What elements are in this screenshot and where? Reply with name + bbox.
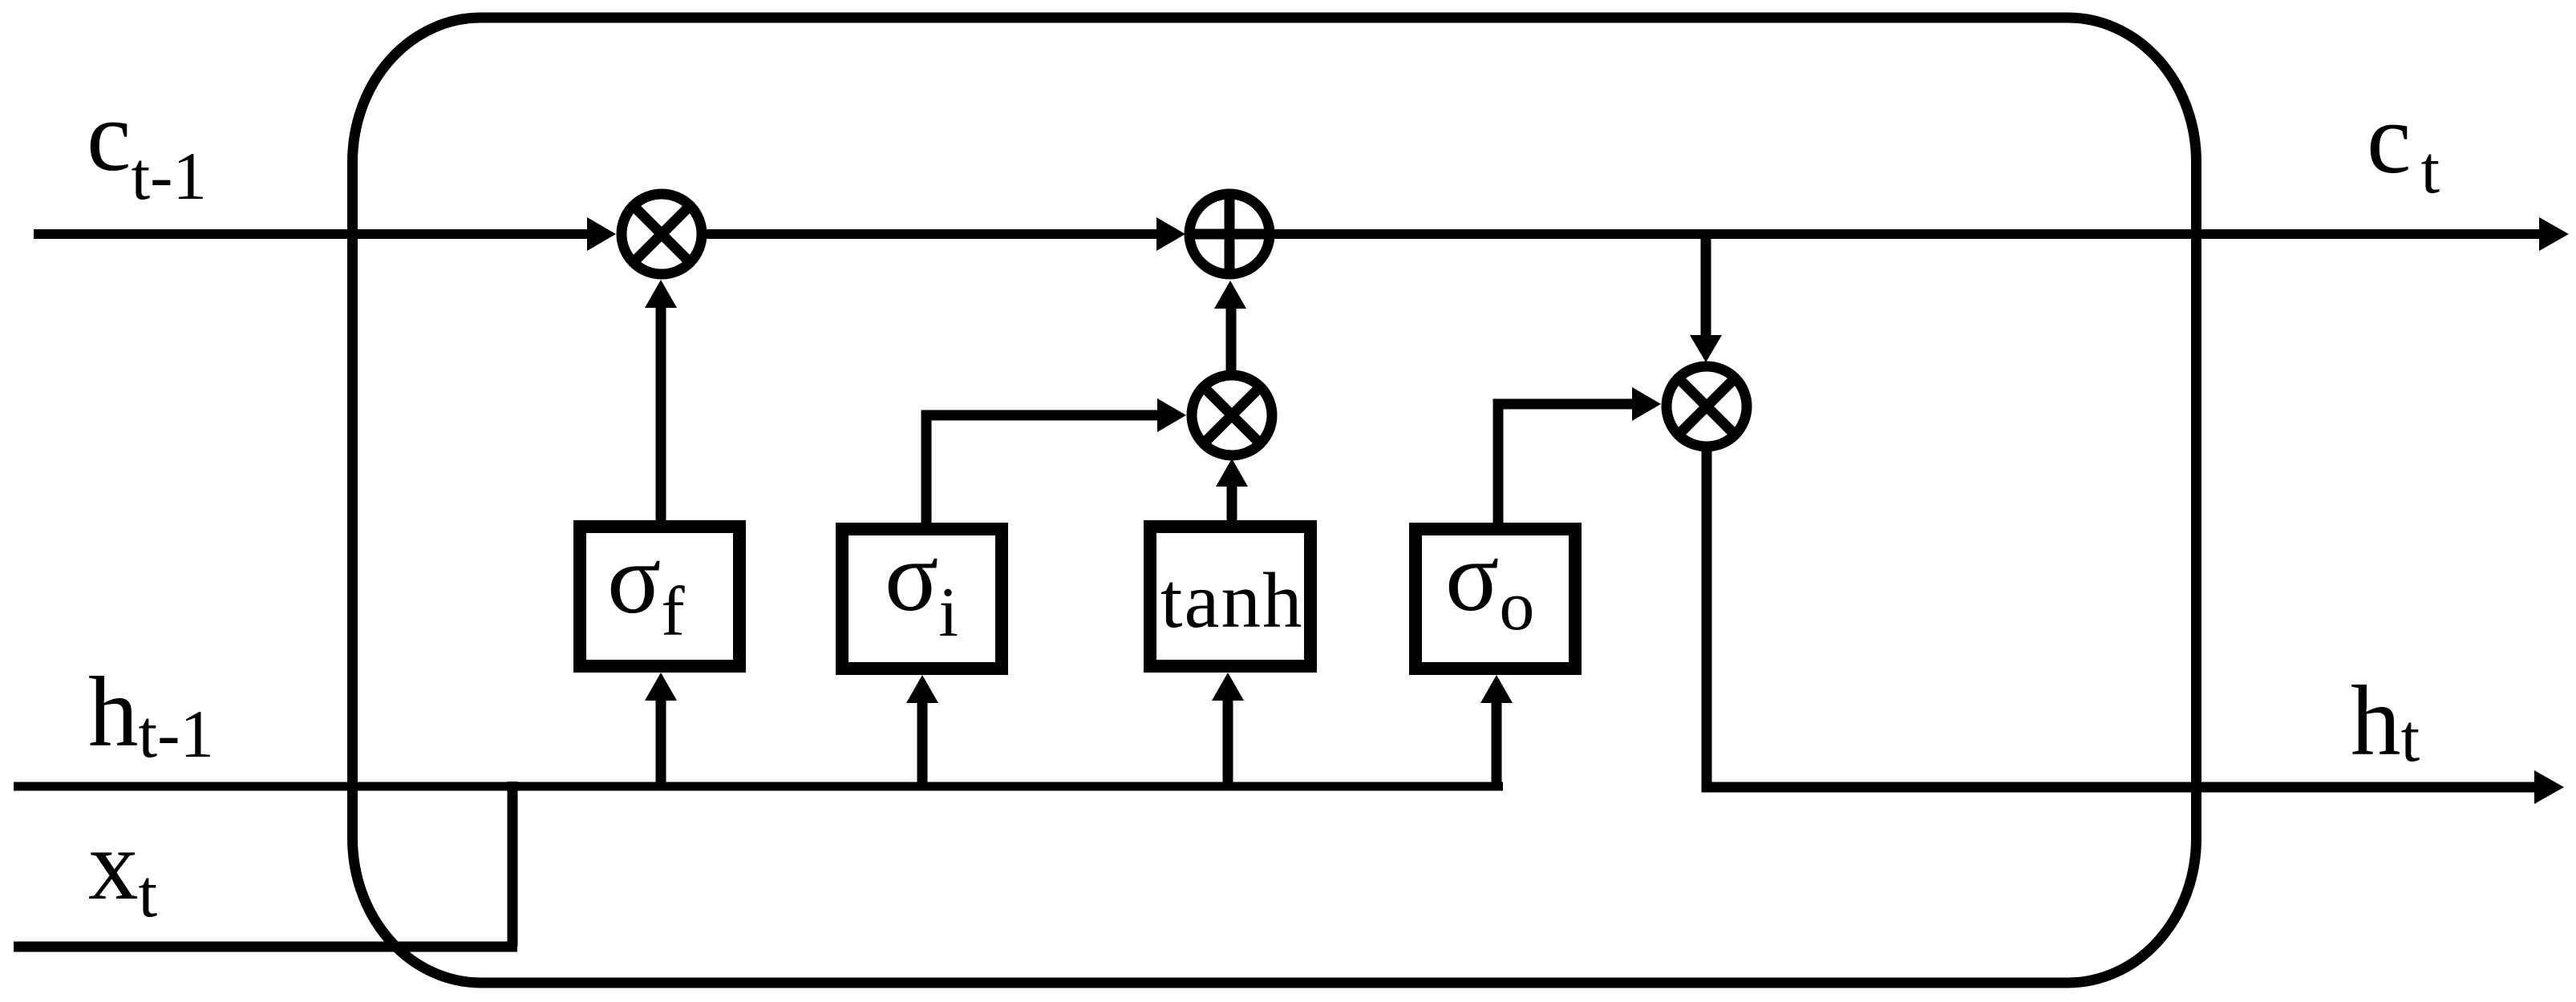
box sigma_o [1416,529,1575,669]
wire h line riser to sigma_o [1492,701,1502,786]
arrowhead into multiplier M1 [587,217,616,251]
wire sigma_i elbow to M2 [926,415,1160,525]
arrowhead into tanh bottom [1212,673,1244,701]
arrowhead into M3 left [1632,387,1661,421]
arrowhead into sigma_f bottom [645,673,677,701]
wire M1 to adder [702,229,1158,239]
wire c(t) output line [1270,229,2541,239]
wire sigma_o elbow to M3 [1498,404,1634,525]
wire h(t-1) input line [14,782,1503,791]
wire M3 down and right to h(t) output [1707,446,2536,787]
adder A1 (cell state sum) [1185,189,1274,279]
wire h line riser to sigma_f [656,699,666,786]
multiplier M3 (output gate product) [1667,366,1747,446]
svg-text:ht-1: ht-1 [88,657,214,772]
arrowhead into M2 left [1157,398,1186,432]
arrowhead c(t) output [2539,217,2569,251]
wire h line riser to sigma_i [917,701,928,786]
arrowhead into M1 bottom [645,280,677,308]
box sigma_f [580,527,739,666]
box sigma_i [842,529,1002,669]
arrowhead into M2 bottom [1216,459,1248,487]
svg-text:ct: ct [2367,84,2440,208]
arrowhead into sigma_o bottom [1480,675,1513,703]
svg-text:tanh: tanh [1160,557,1303,644]
wire c(t-1) input line [34,229,589,239]
arrowhead into adder A1 [1156,217,1185,251]
LSTM cell body rounded rectangle [353,18,2197,983]
wire x(t) riser to h line [508,782,518,947]
wire tanh to M2 [1227,485,1237,525]
wire x(t) input line [14,942,517,952]
arrowhead into sigma_i bottom [906,675,938,703]
svg-text:xt: xt [88,810,158,931]
svg-text:σf: σf [607,524,685,651]
wire c line drop to M3 [1701,234,1711,337]
wire M2 up to adder A1 [1226,306,1237,374]
svg-text:ct-1: ct-1 [87,82,207,214]
svg-text:σi: σi [885,522,958,652]
arrowhead h(t) output [2534,770,2564,804]
arrowhead into M3 top [1690,335,1722,362]
wire h line riser to tanh [1223,699,1233,786]
svg-text:σo: σo [1445,522,1534,645]
svg-text:ht: ht [2351,666,2420,777]
multiplier M1 (forget gate product) [622,194,702,274]
box tanh [1150,527,1310,666]
wire sigma_f to M1 [656,305,666,525]
multiplier M2 (input gate product) [1192,375,1272,455]
arrowhead into A1 bottom [1214,281,1246,309]
